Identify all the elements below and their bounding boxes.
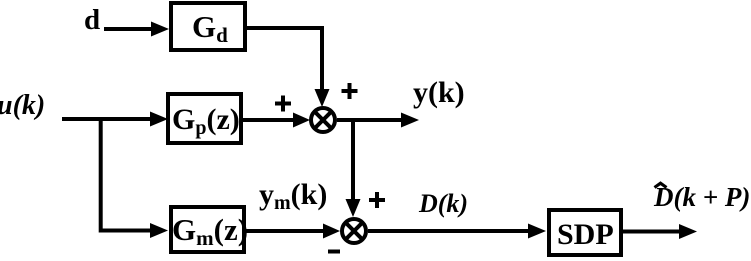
- svg-text:ym(k): ym(k): [259, 178, 327, 214]
- wire u(k) main: [62, 112, 168, 127]
- wire d input arrow: [104, 22, 169, 37]
- block Gm: [171, 207, 244, 252]
- wire Gd-to-S1: [245, 28, 330, 107]
- wire Gm-to-S2: [246, 224, 340, 239]
- minus sign at Gm input of S2: [328, 250, 340, 254]
- svg-text:d: d: [84, 4, 100, 36]
- block SDP: [549, 210, 621, 255]
- svg-text:D(k): D(k): [418, 189, 468, 218]
- wire S2 output D(k): [368, 224, 546, 239]
- summing junction S2: [342, 219, 366, 243]
- block Gd: [171, 3, 245, 50]
- svg-text:Gp(z): Gp(z): [172, 103, 240, 139]
- block Gp: [168, 94, 241, 143]
- svg-text:SDP: SDP: [557, 218, 614, 251]
- wire S1 output y(k): [337, 113, 419, 128]
- wire branch y(k)-to-S2: [346, 120, 361, 217]
- wire SDP output: [623, 224, 697, 239]
- svg-text:u(k): u(k): [0, 90, 45, 121]
- wire branch to Gm: [101, 119, 168, 238]
- plus sign at Gp input of S1: [275, 96, 291, 112]
- label D-hat(k+P): [653, 182, 750, 212]
- svg-text:y(k): y(k): [413, 76, 465, 109]
- wire Gp-to-S1: [241, 113, 310, 128]
- plus sign at top input of S2: [369, 192, 385, 208]
- plus sign at Gd input of S1: [342, 83, 358, 99]
- svg-text:D(k + P): D(k + P): [653, 182, 750, 212]
- summing junction S1: [311, 108, 335, 132]
